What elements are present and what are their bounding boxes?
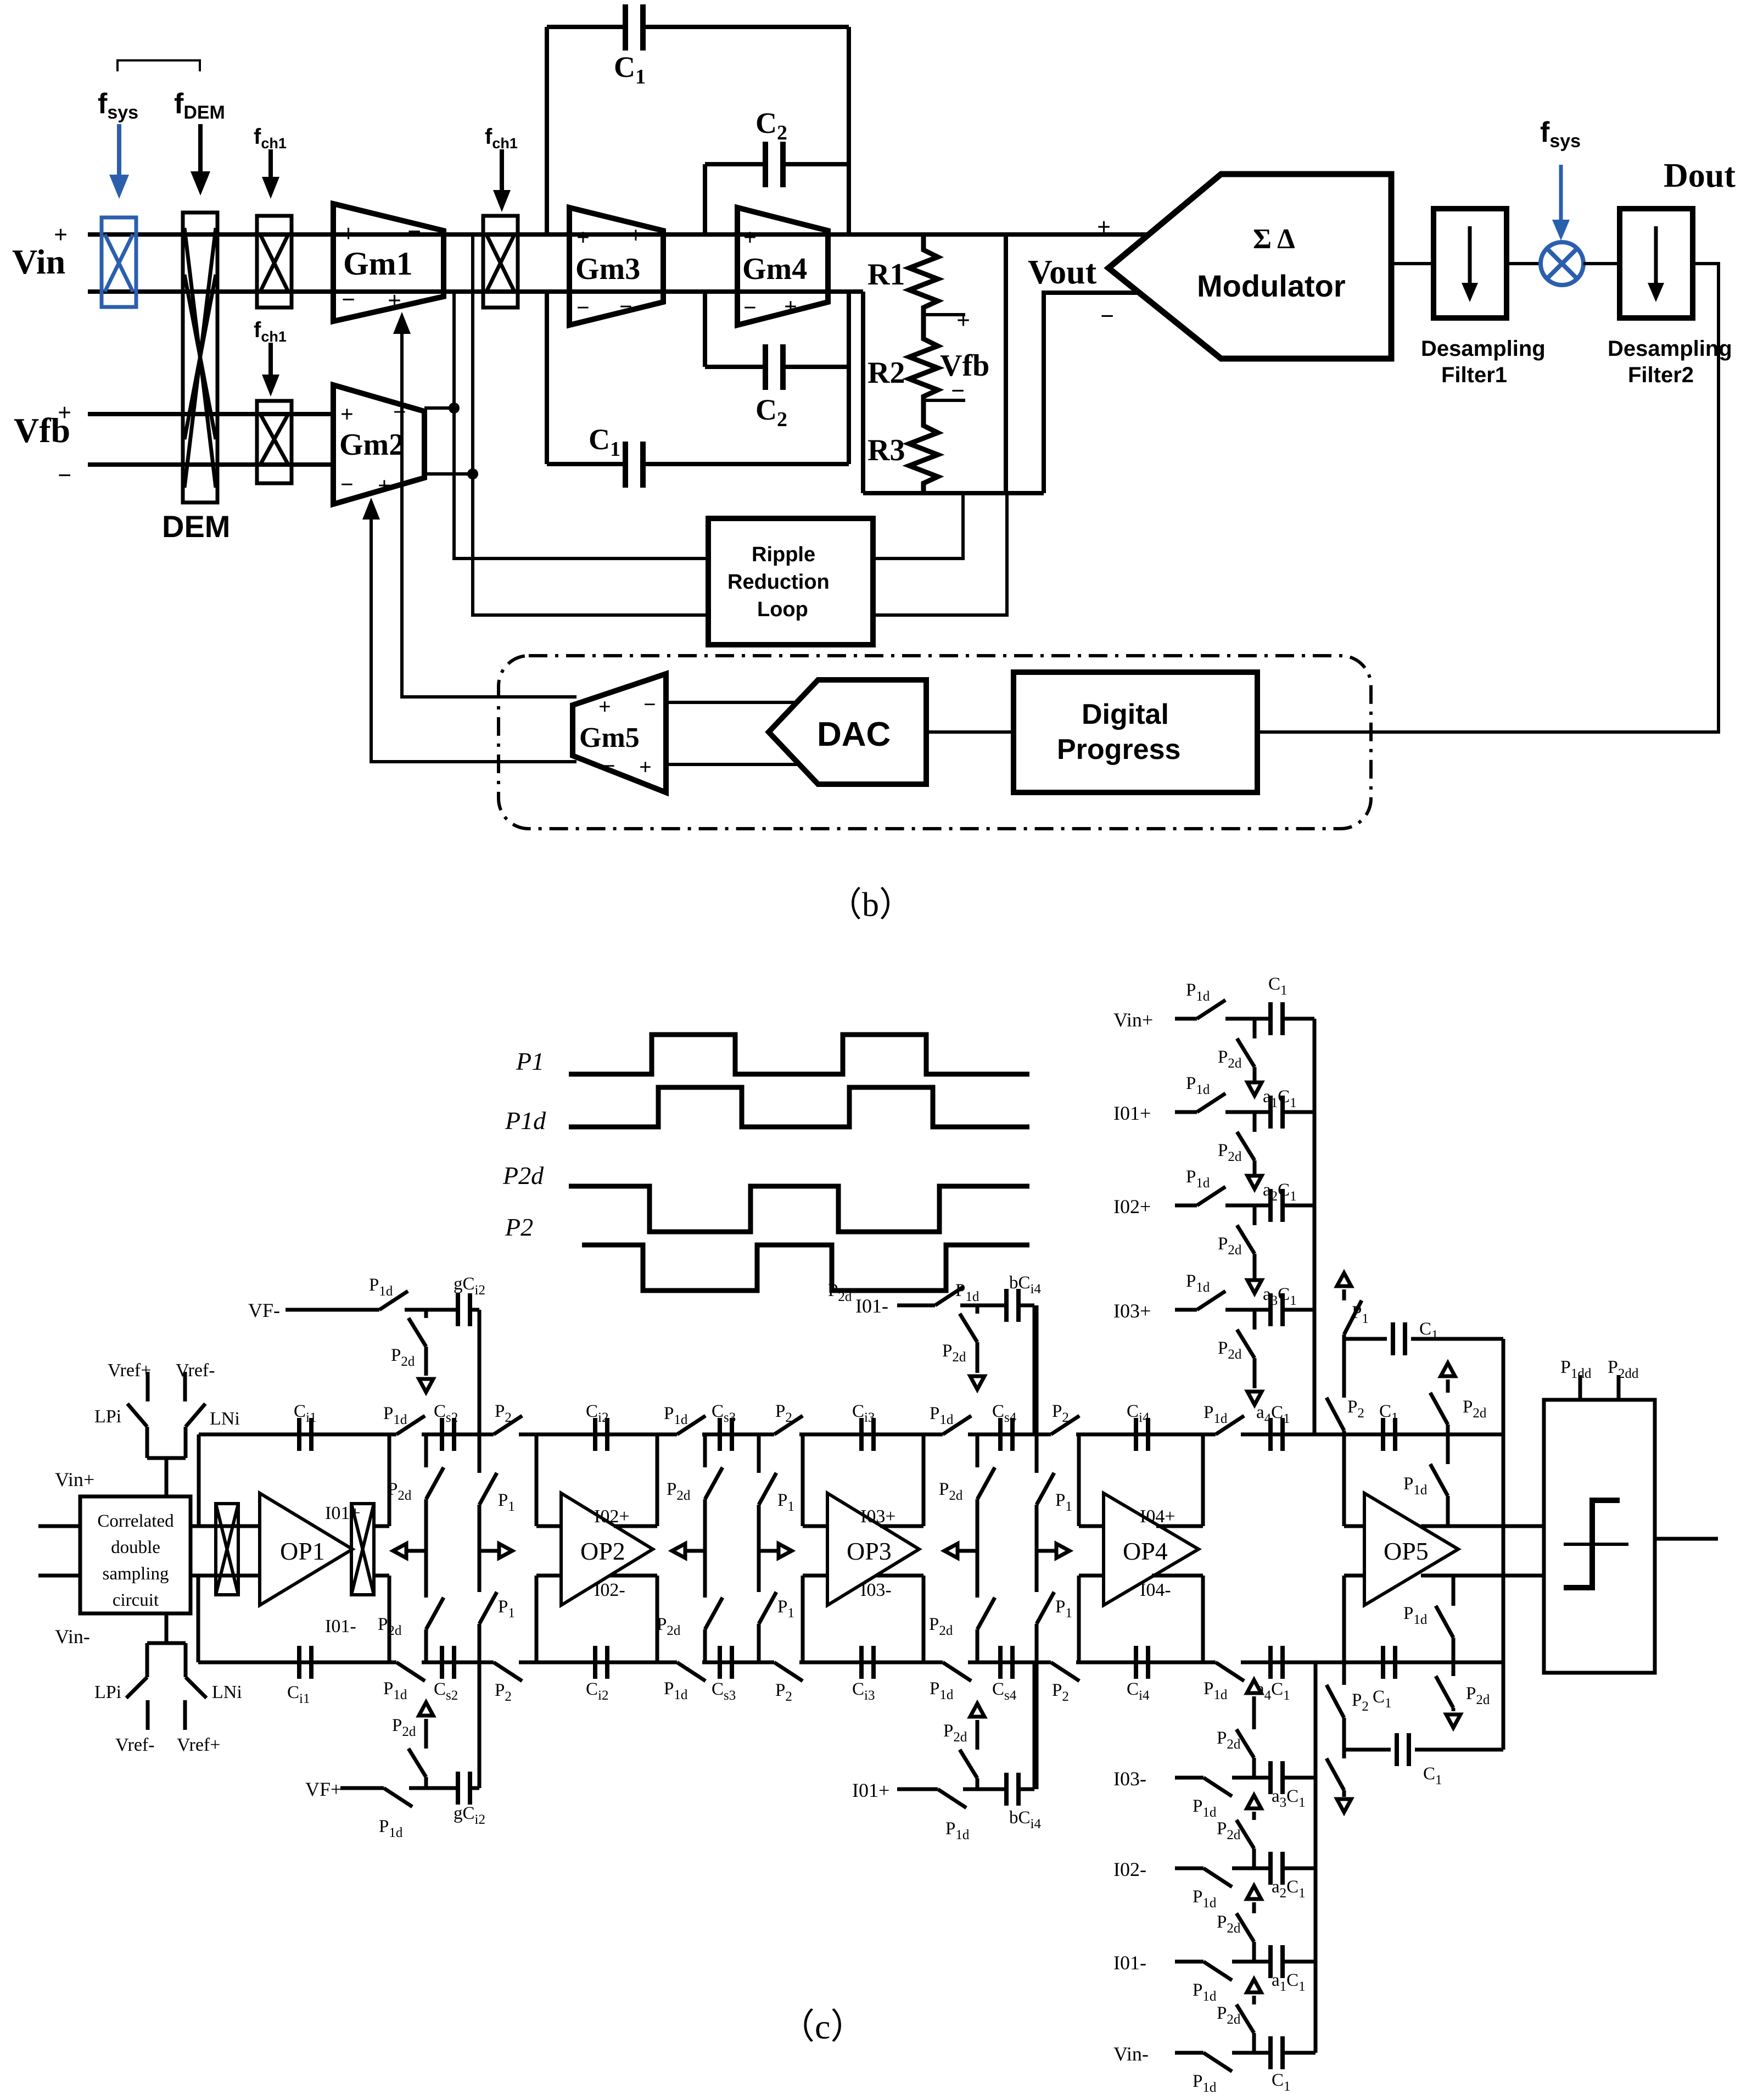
node Vfb+ tap: [923, 313, 965, 316]
svg-text:P1: P1: [516, 1047, 544, 1075]
wire bottom horizontal under R ladder: [863, 491, 1044, 495]
svg-text:+: +: [340, 402, 354, 427]
wire Gm5 inputs from DAC: [666, 701, 797, 704]
wire Dout feedback to digital progress: [1257, 264, 1719, 732]
switch P1d bottom rail x1717: [943, 1660, 968, 1665]
wire C1 bottom branch: [1344, 1748, 1391, 1752]
svg-text:VF+: VF+: [305, 1778, 342, 1800]
node I04+ label: [1140, 1506, 1176, 1527]
node dot Gm2 top output: [449, 403, 460, 414]
svg-text:OP3: OP3: [847, 1537, 892, 1565]
wire modulator to filter1: [1391, 262, 1434, 265]
wire OP5 right pillar: [1502, 1339, 1505, 1750]
chopper DEM: [183, 213, 217, 502]
node I03+ label: [860, 1506, 896, 1527]
svg-text:LPi: LPi: [94, 1406, 121, 1427]
arrow fsys to mixer (blue): [1559, 165, 1563, 224]
svg-text:DEM: DEM: [162, 509, 230, 544]
wire Vin- rail: [88, 289, 863, 294]
svg-text:+: +: [784, 294, 797, 320]
svg-text:double: double: [111, 1538, 160, 1557]
svg-text:Gm4: Gm4: [742, 252, 807, 286]
svg-text:+: +: [58, 399, 71, 426]
wire bottom rail turn down: [861, 292, 865, 493]
svg-text:I02-: I02-: [1113, 1858, 1146, 1880]
label fDEM: [174, 88, 225, 123]
wire OP5 left vertical (bottom): [1342, 1576, 1346, 1662]
capacitor bCi4 top: [1006, 1289, 1018, 1322]
node I02- label: [1113, 1858, 1146, 1880]
node I01- label: [325, 1616, 356, 1637]
svg-text:OP2: OP2: [580, 1537, 625, 1565]
svg-text:Modulator: Modulator: [1197, 269, 1346, 303]
wire OP1 outputs: [374, 1524, 389, 1528]
capacitor bCi4 bottom: [1006, 1773, 1018, 1806]
wire stage1 feedback left verticals: [197, 1434, 201, 1526]
svg-text:Filter2: Filter2: [1628, 363, 1694, 387]
svg-text:I02+: I02+: [1113, 1196, 1151, 1217]
op-amp OP2: [561, 1493, 653, 1605]
wire OP5 input wires: [1344, 1524, 1364, 1528]
svg-text:（c）: （c）: [780, 2007, 865, 2046]
wire VF+ branch: [340, 1786, 384, 1790]
svg-text:Vref-: Vref-: [115, 1735, 155, 1755]
svg-text:−: −: [1100, 303, 1114, 329]
svg-text:Vref-: Vref-: [176, 1360, 215, 1381]
chopper fsys (blue): [102, 217, 136, 307]
dash-dot enclosure: [499, 656, 1371, 829]
svg-text:P2: P2: [505, 1213, 533, 1241]
label modulator plus minus: [1097, 214, 1114, 329]
node I04- label: [1140, 1580, 1171, 1600]
svg-text:Filter1: Filter1: [1441, 363, 1507, 387]
switch P2d above row I03-: [1252, 1758, 1256, 1778]
chopper OP1 input: [216, 1504, 238, 1595]
wire OP4 outputs: [1156, 1524, 1203, 1528]
switch P1d bottom rail x1233: [677, 1660, 702, 1665]
svg-text:I04+: I04+: [1140, 1506, 1176, 1527]
node Vin+ label: [1113, 1009, 1153, 1031]
wire vertical x827 ripple in1: [454, 292, 708, 558]
capacitor Ci4 bottom: [1136, 1646, 1148, 1679]
box correlated double sampling circuit: [80, 1496, 191, 1613]
wire row I02-: [1175, 1867, 1204, 1870]
capacitor row I01+: [1270, 1096, 1283, 1129]
wire mixer to filter2: [1583, 262, 1620, 265]
switch P2 top rail x1410: [774, 1432, 799, 1437]
capacitor row I01-: [1270, 1945, 1283, 1978]
svg-text:I02+: I02+: [594, 1506, 630, 1527]
wire stage OP2 feedback verticals: [535, 1434, 539, 1526]
capacitor Cs4 top: [1000, 1418, 1012, 1451]
arrow left at x776: [406, 1549, 426, 1553]
switch P2 bottom rail x1410: [774, 1660, 799, 1665]
svg-text:−: −: [794, 223, 807, 248]
svg-text:I03+: I03+: [860, 1506, 896, 1527]
resistor R2: [909, 315, 938, 400]
svg-text:−: −: [603, 753, 615, 778]
node I03- label: [860, 1580, 892, 1600]
wire I01+ branch: [897, 1788, 938, 1791]
wire P1d/P2d vertical top right of OP5: [1446, 1496, 1450, 1526]
wire Gm2 top output: [424, 406, 454, 410]
capacitor Cs4 bottom: [1000, 1646, 1012, 1679]
wire top stack bus: [1313, 1019, 1317, 1434]
node I03- label: [1113, 1768, 1146, 1790]
capacitor C1 bottom loop: [545, 292, 549, 464]
svg-text:Gm5: Gm5: [579, 722, 640, 753]
svg-text:Gm1: Gm1: [343, 245, 413, 282]
wire row Vin+: [1175, 1017, 1197, 1021]
node P2dd stem: [1617, 1375, 1621, 1400]
switch P1d bottom rail before a4C1: [1216, 1660, 1241, 1665]
node I02- label: [594, 1580, 625, 1600]
node P1dd stem: [1579, 1375, 1582, 1400]
wire P1 pillar x1888: [1035, 1305, 1039, 1473]
node I01+ label (bCi4 bottom): [852, 1779, 889, 1801]
capacitor Ci4 top: [1136, 1418, 1148, 1451]
capacitor Ci1 top: [299, 1418, 311, 1451]
capacitor C1 bottom branch: [1397, 1733, 1409, 1766]
wire stage OP3 feedback verticals: [801, 1434, 805, 1526]
switch P2d below row I01+: [1253, 1112, 1257, 1132]
op-amp OP5: [1364, 1493, 1458, 1605]
svg-text:circuit: circuit: [113, 1590, 159, 1610]
svg-text:+: +: [1097, 214, 1111, 241]
svg-text:P2d: P2d: [502, 1161, 544, 1189]
svg-text:Vin-: Vin-: [55, 1626, 90, 1647]
node I01+ label: [325, 1503, 361, 1523]
label (c): [780, 2007, 865, 2046]
wire row I03-: [1175, 1776, 1204, 1780]
svg-text:−: −: [407, 218, 421, 245]
wire P1 pillar x1382: [757, 1434, 761, 1473]
switch P2d above row I01-: [1252, 1942, 1256, 1962]
chopper fch1 after Gm1: [483, 216, 518, 308]
switch P2d with up arrow (bCi4 bottom): [976, 1778, 979, 1789]
wire to modulator minus: [1044, 293, 1140, 493]
svg-text:I02-: I02-: [594, 1580, 625, 1600]
wire ripple out1: [873, 493, 963, 558]
switch P2 bottom rail x899: [494, 1660, 519, 1665]
wire VF- branch: [286, 1308, 379, 1312]
arrow right at x873: [479, 1549, 499, 1553]
svg-text:+: +: [342, 220, 355, 247]
svg-text:Gm3: Gm3: [575, 252, 640, 286]
op-amp OP1: [260, 1493, 352, 1605]
wire ripple out2: [873, 493, 1007, 615]
svg-text:OP1: OP1: [280, 1537, 325, 1565]
svg-text:OP5: OP5: [1384, 1537, 1429, 1565]
svg-text:Loop: Loop: [757, 598, 808, 621]
capacitor a4C1 bottom: [1270, 1646, 1283, 1679]
label DEM: [162, 509, 230, 544]
switch P2d above row Vin-: [1252, 2033, 1256, 2053]
wire row I01-: [1175, 1960, 1204, 1964]
wire stage OP4 feedback verticals: [1077, 1434, 1081, 1526]
capacitor Ci1 bottom: [299, 1646, 311, 1679]
switch P2d above row I02-: [1252, 1848, 1256, 1868]
svg-text:+: +: [378, 473, 391, 499]
svg-text:−: −: [342, 286, 355, 313]
wire P2d vertical x776: [424, 1434, 428, 1467]
node Vin+ label: [55, 1468, 94, 1490]
node I02+ label: [1113, 1196, 1151, 1217]
arrow left at x1780: [958, 1549, 977, 1553]
op-amp Gm3: [569, 208, 663, 325]
svg-text:−: −: [576, 295, 590, 321]
label fch1 (after Gm1): [485, 125, 518, 152]
wire OP2 outputs: [614, 1524, 657, 1528]
svg-text:LNi: LNi: [210, 1409, 240, 1429]
svg-text:Reduction: Reduction: [727, 571, 830, 594]
node dot Gm2 bottom output: [467, 468, 478, 479]
svg-text:Ripple: Ripple: [752, 543, 815, 566]
svg-text:+: +: [639, 755, 652, 779]
svg-text:Vin+: Vin+: [55, 1468, 94, 1490]
capacitor row I03-: [1270, 1761, 1283, 1794]
resistor R3: [909, 400, 938, 493]
wire P2d vertical x1284: [703, 1434, 707, 1467]
arrow fch1 first: [268, 149, 273, 181]
svg-text:Vref+: Vref+: [177, 1735, 220, 1755]
switch P1d top rail x1717: [943, 1432, 968, 1437]
label Dout: [1664, 157, 1736, 194]
svg-text:I01+: I01+: [852, 1779, 889, 1801]
arrow down inside filter2: [1654, 226, 1658, 290]
svg-text:Progress: Progress: [1057, 734, 1180, 766]
capacitor Ci2 bottom: [595, 1646, 607, 1679]
capacitor Ci3 bottom: [861, 1646, 874, 1679]
svg-text:Σ Δ: Σ Δ: [1253, 224, 1295, 255]
arrow right at x1888: [1037, 1549, 1056, 1553]
switch P2d below row Vin+: [1253, 1019, 1257, 1038]
wire Vout node vertical: [1004, 234, 1008, 493]
wire Gm5 out top to Gm1 arrow: [402, 331, 576, 697]
arrow fDEM: [198, 124, 203, 175]
clock waveform P2d: [569, 1186, 1029, 1232]
svg-text:R3: R3: [867, 433, 905, 467]
svg-text:LPi: LPi: [94, 1682, 121, 1702]
node Vin- label: [1113, 2043, 1149, 2065]
svg-text:R2: R2: [867, 356, 905, 390]
switch P2d below row I02+: [1253, 1205, 1257, 1225]
wire C1 top branch: [1344, 1337, 1387, 1341]
capacitor C2 top loop: [703, 164, 707, 234]
label fch1 (first): [254, 125, 287, 152]
node Vfb- tap: [923, 399, 965, 402]
node I03+ label: [1113, 1300, 1151, 1322]
svg-text:Correlated: Correlated: [97, 1511, 174, 1531]
label fsys (blue): [98, 88, 138, 123]
svg-text:−: −: [393, 400, 406, 425]
svg-text:−: −: [58, 462, 71, 489]
svg-text:−: −: [619, 294, 632, 320]
node Vfb label: [14, 399, 71, 489]
sigma-delta modulator pentagon: [1109, 174, 1391, 359]
label fsys right (blue): [1540, 116, 1581, 152]
svg-text:I01-: I01-: [855, 1295, 888, 1317]
label fch1 (Gm2 path): [254, 318, 287, 345]
svg-text:Vout: Vout: [1028, 254, 1097, 291]
wire top rail: [199, 1433, 1503, 1437]
node Vin label: [12, 221, 68, 281]
svg-text:I03+: I03+: [1113, 1300, 1151, 1322]
wire Vfb+ rail: [88, 412, 333, 416]
arrow right at x1382: [759, 1549, 779, 1553]
ripple reduction loop box: [708, 518, 873, 645]
comparator hysteresis symbol: [1564, 1500, 1620, 1588]
arrow fch1 Gm2 path: [268, 343, 273, 378]
capacitor gCi2 bottom: [458, 1772, 470, 1805]
switches LPi LNi Vref top funnel: [147, 1427, 186, 1496]
svg-text:Vfb: Vfb: [940, 349, 989, 383]
desampling filter1 box: [1434, 209, 1507, 318]
svg-text:−: −: [340, 472, 354, 498]
clock waveform P1d: [569, 1087, 1029, 1127]
svg-text:−: −: [743, 295, 757, 321]
svg-text:Digital: Digital: [1082, 699, 1169, 730]
capacitor row I02-: [1270, 1852, 1283, 1885]
capacitor C1 top branch: [1393, 1322, 1405, 1355]
capacitor Cs3 top: [720, 1418, 732, 1451]
node VF+ label: [305, 1778, 342, 1800]
svg-text:sampling: sampling: [103, 1564, 169, 1584]
label Desampling Filter2: [1608, 337, 1732, 387]
svg-text:Dout: Dout: [1664, 157, 1736, 194]
wire comparator output: [1655, 1537, 1718, 1541]
wire Gm2 bottom output: [424, 472, 473, 476]
arrow left at x1284: [685, 1549, 705, 1553]
switch P2d with arrow (bCi4 top): [976, 1305, 979, 1314]
capacitor C2 bottom loop: [703, 292, 707, 367]
svg-text:I04-: I04-: [1140, 1580, 1171, 1600]
capacitor row Vin+: [1270, 1002, 1283, 1035]
wire DAC to digital progress: [926, 730, 1014, 734]
wire P2d vertical x1780: [976, 1434, 979, 1467]
wire Vin+ rail: [88, 232, 1149, 237]
clock waveform P2: [582, 1245, 1029, 1291]
op-amp Gm1: [333, 204, 444, 321]
svg-text:R1: R1: [867, 258, 905, 292]
switch P1d bottom rail x722: [396, 1660, 422, 1665]
svg-text:Desampling: Desampling: [1608, 337, 1732, 361]
svg-text:P1d: P1d: [505, 1107, 546, 1135]
node I02+ label: [594, 1506, 630, 1527]
svg-text:（b）: （b）: [828, 886, 913, 924]
svg-text:LNi: LNi: [212, 1682, 242, 1702]
wire Gm5 out bottom to Gm2 arrow: [371, 516, 576, 762]
svg-text:VF-: VF-: [248, 1299, 280, 1321]
op-amp OP4: [1104, 1493, 1199, 1605]
wire OP1 input wires: [191, 1524, 260, 1528]
switch P1d top rail x1233: [677, 1432, 702, 1437]
wire bottom stack bus: [1314, 1662, 1318, 2053]
svg-text:DAC: DAC: [817, 716, 891, 753]
node I01- label (bCi4 top): [855, 1295, 888, 1317]
bracket over fsys fDEM: [117, 60, 200, 71]
svg-text:I01-: I01-: [325, 1616, 356, 1637]
label (b): [828, 886, 913, 924]
wire row Vin-: [1175, 2051, 1204, 2055]
wire row I01+: [1175, 1110, 1197, 1114]
chopper OP1 output: [351, 1504, 374, 1595]
wire OP3 outputs: [880, 1524, 923, 1528]
capacitor C1 on top rail: [1383, 1418, 1395, 1451]
switch P2 bottom rail x1914: [1051, 1660, 1076, 1665]
wire bottom rail: [198, 1661, 1503, 1665]
switch P2 top rail x1914: [1051, 1432, 1076, 1437]
svg-text:+: +: [576, 225, 590, 250]
capacitor row Vin-: [1270, 2036, 1283, 2069]
clock waveform P1: [569, 1035, 1029, 1074]
label Desampling Filter1: [1421, 337, 1546, 387]
arrow fsys (blue): [109, 124, 129, 199]
wire filter1 to mixer: [1507, 262, 1541, 265]
svg-text:I03-: I03-: [860, 1580, 892, 1600]
svg-text:+: +: [598, 694, 611, 719]
wire row I02+: [1175, 1204, 1197, 1208]
capacitor Ci3 top: [861, 1418, 874, 1451]
capacitor gCi2: [458, 1293, 470, 1326]
svg-text:I03-: I03-: [1113, 1768, 1146, 1790]
label Vout: [1028, 254, 1097, 291]
capacitor Ci2 top: [595, 1418, 607, 1451]
node I01- label: [1113, 1952, 1146, 1974]
svg-text:I01-: I01-: [1113, 1952, 1146, 1974]
op-amp Gm4: [737, 208, 828, 325]
op-amp Gm2: [333, 385, 424, 504]
svg-text:Desampling: Desampling: [1421, 337, 1546, 361]
switch P2d below row I03+: [1253, 1310, 1257, 1330]
DAC pentagon: [769, 680, 926, 784]
wire OP5 left vertical with P1 P2 switches (top): [1342, 1339, 1346, 1398]
svg-text:+: +: [743, 225, 757, 250]
op-amp Gm5: [573, 674, 666, 792]
svg-text:Gm2: Gm2: [339, 428, 404, 462]
capacitor a4C1 top: [1270, 1418, 1283, 1451]
svg-text:−: −: [951, 377, 965, 404]
wire P1 pillar x873: [478, 1310, 482, 1473]
wire vertical x861 ripple in2: [473, 234, 708, 615]
op-amp OP3: [827, 1493, 919, 1605]
svg-text:+: +: [388, 287, 401, 314]
svg-text:I01+: I01+: [1113, 1102, 1151, 1124]
switch P2 top rail x899: [494, 1432, 519, 1437]
chopper fch1 top: [257, 216, 292, 308]
svg-text:−: −: [643, 692, 656, 717]
capacitor C1 on bottom rail: [1383, 1646, 1395, 1679]
svg-text:+: +: [629, 223, 642, 248]
wire OP5 outputs: [1421, 1524, 1544, 1528]
svg-text:Vin-: Vin-: [1113, 2043, 1149, 2065]
wire input stubs: [38, 1524, 80, 1528]
wire P1d/P2d vertical bottom right of OP5: [1452, 1576, 1456, 1606]
svg-text:Vref+: Vref+: [108, 1360, 151, 1381]
clock waveform labels: [516, 1047, 544, 1075]
mixer circle (blue): [1541, 242, 1583, 285]
node VF- label: [248, 1299, 280, 1321]
node I01+ label: [1113, 1102, 1151, 1124]
wire row I03+: [1175, 1308, 1197, 1312]
capacitor Cs2 bottom: [442, 1646, 454, 1679]
switch P2d with arrow (VF- branch): [424, 1310, 428, 1318]
desampling filter2 box: [1620, 209, 1693, 318]
capacitor row I03+: [1270, 1293, 1283, 1326]
arrow down inside filter1: [1468, 226, 1472, 290]
svg-text:OP4: OP4: [1123, 1537, 1168, 1565]
arrow into Gm1 bottom: [393, 312, 411, 334]
